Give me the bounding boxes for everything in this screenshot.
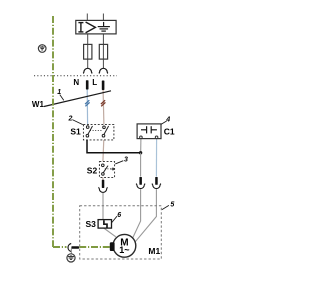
pin of S2 output connector bbox=[102, 180, 105, 188]
wire C1 left terminal to junction bbox=[140, 139, 142, 152]
switch S1 box bbox=[83, 124, 114, 139]
svg-text:C1: C1 bbox=[164, 127, 175, 137]
svg-text:S2: S2 bbox=[87, 166, 98, 176]
wire N box to fuse F-left bbox=[87, 34, 89, 68]
brown colour hatch on L wire bbox=[101, 100, 106, 106]
svg-text:S3: S3 bbox=[86, 219, 97, 229]
S1 pole 2 bbox=[102, 126, 108, 137]
thermal protector S3 bbox=[98, 220, 111, 229]
svg-text:1~: 1~ bbox=[119, 245, 129, 255]
svg-text:M1: M1 bbox=[148, 246, 160, 256]
wire S2 connector down to S3 and motor bbox=[102, 193, 104, 220]
dashed enclosure M1 bbox=[80, 206, 162, 259]
thick wire S1 left pole down and right to junction bbox=[87, 139, 141, 153]
socket arc under junction bbox=[136, 184, 145, 189]
motor M1 circle bbox=[113, 234, 136, 257]
plug pin L bbox=[102, 81, 105, 91]
cable marker W1 diagonal bbox=[44, 91, 111, 107]
PE symbol circle top bbox=[38, 45, 46, 53]
switch S2 box bbox=[99, 162, 114, 178]
S1 pole 1 bbox=[86, 126, 92, 137]
wire L box to fuse F-right bbox=[102, 34, 104, 68]
pin of connector under C1 right bbox=[155, 177, 158, 185]
wire L stub above protection box bbox=[102, 14, 104, 21]
green PE conductor horizontal to connector bbox=[53, 246, 67, 248]
svg-text:3: 3 bbox=[124, 157, 128, 164]
fuse F-right bbox=[99, 44, 107, 59]
PE symbol circle bottom bbox=[67, 254, 75, 262]
svg-text:S1: S1 bbox=[70, 127, 81, 137]
svg-text:W1: W1 bbox=[32, 100, 45, 109]
stub to PE circle bottom bbox=[70, 249, 72, 254]
capacitor symbol bbox=[141, 126, 157, 133]
svg-text:4: 4 bbox=[165, 116, 170, 123]
C1 terminal circles bbox=[140, 136, 143, 139]
socket arc L (mains side) bbox=[99, 68, 108, 73]
PE plug-socket connector bbox=[68, 244, 71, 252]
protection box with overcurrent release I> and earth bbox=[76, 20, 116, 34]
S2 contact bbox=[102, 164, 109, 175]
wire L (brown) pin to S1 bbox=[102, 90, 105, 124]
green PE conductor vertical bbox=[52, 16, 54, 247]
S1 mechanical link dotted bbox=[90, 130, 103, 132]
blue colour hatch on N wire bbox=[85, 100, 90, 106]
motor terminal block bbox=[110, 242, 115, 251]
svg-text:6: 6 bbox=[117, 212, 121, 219]
svg-text:L: L bbox=[92, 78, 97, 87]
fuse F-left bbox=[84, 44, 92, 59]
node junction bbox=[139, 151, 142, 154]
wire S1 right pole to S2 (brown) bbox=[103, 137, 104, 162]
earth symbol in box bbox=[98, 22, 110, 31]
svg-text:2: 2 bbox=[68, 116, 73, 123]
green PE conductor horizontal to motor bbox=[79, 246, 110, 248]
socket arc below S2 bbox=[98, 187, 107, 192]
socket arc under C1 right bbox=[152, 184, 161, 189]
svg-text:5: 5 bbox=[170, 202, 174, 209]
svg-text:N: N bbox=[73, 78, 79, 87]
wire junction down to connector bbox=[140, 153, 142, 177]
wire S2 box to pin stub bbox=[102, 177, 104, 180]
dotted boundary line of plug connector bbox=[34, 75, 117, 77]
plug pin N bbox=[86, 80, 89, 89]
wire C1 right terminal down (blue) bbox=[155, 139, 157, 177]
wire junction connector down to motor bbox=[132, 189, 140, 239]
I> symbol bbox=[78, 22, 95, 33]
wire C1-right connector down to motor bbox=[135, 189, 157, 242]
wire N (blue) pin to S1 bbox=[86, 90, 88, 125]
pin of connector under junction bbox=[139, 177, 142, 185]
capacitor C1 box bbox=[137, 124, 161, 139]
wire N stub above protection box bbox=[86, 14, 88, 21]
socket arc N (mains side) bbox=[83, 68, 92, 73]
S2 dotted actuator link bbox=[105, 168, 112, 170]
